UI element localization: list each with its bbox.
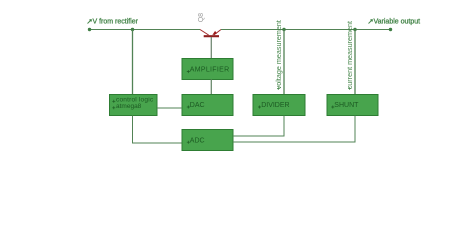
wire: main +V rail right segment	[221, 29, 391, 31]
junction: rail to current measurement	[353, 28, 356, 31]
svg-text:atmega8: atmega8	[116, 103, 142, 110]
svg-text:SHUNT: SHUNT	[334, 102, 359, 109]
net label "+Variable output"	[369, 19, 421, 26]
wire: transistor base to amplifier	[210, 37, 212, 59]
wire: divider down and left to ADC	[233, 116, 284, 137]
block DIVIDER	[253, 95, 305, 116]
junction: rail to control logic	[131, 28, 134, 31]
wire: main +V rail left segment	[89, 29, 200, 31]
svg-text:ADC: ADC	[190, 137, 205, 144]
wire: junction down to control logic	[132, 30, 134, 95]
svg-text:voltage measurement: voltage measurement	[274, 20, 283, 89]
svg-text:Variable output: Variable output	[374, 19, 421, 26]
block control logic atmega8	[110, 95, 158, 116]
block DAC	[182, 95, 233, 116]
net label "voltage measurement" (rotated)	[274, 20, 283, 90]
wire: amplifier to DAC	[210, 80, 212, 95]
wire: shunt down and left to ADC	[233, 116, 355, 143]
svg-text:DIVIDER: DIVIDER	[261, 102, 289, 109]
wire: current measurement vertical	[354, 30, 356, 95]
transistor Q8 (PNP series pass)	[198, 13, 221, 36]
net label "+V from rectifier"	[88, 19, 139, 26]
block ADC	[182, 130, 233, 151]
svg-text:DAC: DAC	[190, 102, 205, 109]
wire: control logic to DAC	[157, 107, 182, 109]
block SHUNT	[327, 95, 378, 116]
svg-text:AMPLIFIER: AMPLIFIER	[190, 67, 230, 74]
svg-text:V from rectifier: V from rectifier	[93, 19, 139, 26]
junction: rail to voltage measurement	[282, 28, 285, 31]
block AMPLIFIER	[182, 59, 233, 80]
wire: voltage measurement vertical	[283, 30, 285, 95]
net label "current measurement" (rotated)	[345, 21, 354, 90]
wire: control logic down and right to ADC	[133, 116, 183, 144]
node: variable output endpoint	[389, 28, 392, 31]
node: +V rail left endpoint	[88, 28, 91, 31]
svg-text:Q8: Q8	[198, 13, 205, 22]
svg-text:current measurement: current measurement	[345, 21, 354, 89]
